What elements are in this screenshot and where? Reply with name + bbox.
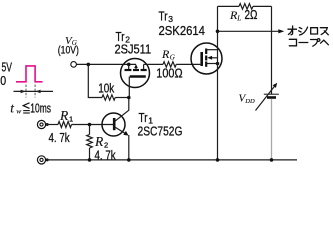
dashed marker left: [25, 85, 27, 98]
svg-text:Tr: Tr: [159, 10, 168, 23]
node VG junction: [87, 63, 91, 67]
ground rail: [46, 159, 297, 161]
Tr2 drain down-lead: [143, 64, 145, 69]
input terminal top: [37, 120, 45, 128]
resistor 10k: [102, 95, 115, 100]
wire 10k to node: [115, 97, 129, 99]
transistor Q Tr1 circle: [102, 113, 125, 136]
Tr2 gate lead down: [128, 77, 130, 98]
Tr2 channel dash left: [125, 69, 132, 71]
Tr2 channel dash middle: [133, 69, 139, 71]
resistor R2: [87, 135, 93, 149]
svg-text:2Ω: 2Ω: [245, 9, 258, 22]
wire VG to Tr2 source: [76, 63, 136, 65]
svg-text:L: L: [236, 15, 241, 23]
Tr1 base bar: [113, 118, 116, 130]
node rail R2: [88, 158, 92, 162]
svg-text:2SJ511: 2SJ511: [115, 41, 152, 56]
input terminal bottom: [37, 156, 45, 164]
Tr3 channel dash middle: [205, 56, 207, 61]
top rail left segment: [218, 5, 240, 7]
Tr3 source branch: [206, 63, 217, 65]
transistor Tr2 circle (2SJ511 P-MOSFET): [121, 59, 150, 88]
svg-text:R: R: [59, 108, 69, 123]
svg-text:DD: DD: [244, 98, 255, 105]
svg-text:2SC752G: 2SC752G: [138, 123, 183, 139]
node Tr3 source/body: [216, 62, 220, 66]
svg-text:R: R: [94, 134, 104, 149]
label oscilloscope katakana line1: オシロス: [288, 26, 328, 35]
wire scope tap arrow: [218, 30, 281, 32]
svg-text:1: 1: [69, 115, 73, 124]
Tr2 gate bar: [130, 75, 146, 78]
dimension line tw: [14, 90, 54, 92]
Tr2 body arrow (points up, P-ch): [135, 67, 137, 70]
label oscilloscope katakana line2: コープへ: [289, 39, 328, 47]
transistor Tr3 circle (2SK2614 N-MOSFET): [191, 43, 222, 74]
svg-text:10ms: 10ms: [30, 102, 51, 116]
wire RG to Tr3 gate: [176, 63, 200, 65]
battery variable arrow: [256, 85, 276, 110]
node rail Tr1 emitter: [127, 158, 131, 162]
pulse waveform (magenta): [16, 66, 43, 82]
svg-text:0: 0: [0, 73, 6, 88]
resistor R1: [58, 122, 72, 128]
node scope tap: [216, 30, 220, 34]
node rail VDD: [270, 158, 274, 162]
svg-text:(10V): (10V): [58, 45, 79, 57]
Tr3 drain branch: [206, 49, 217, 51]
battery VDD minus plate: [267, 96, 276, 99]
wire R1 to base: [72, 124, 114, 126]
Tr3 body arrow (points left, N-ch): [212, 57, 218, 59]
dashed marker right: [34, 85, 36, 98]
svg-text:G: G: [170, 53, 175, 61]
resistor RL: [239, 4, 253, 10]
wire input to R1: [46, 124, 58, 126]
Tr3 channel dash bottom: [205, 62, 207, 67]
Tr2 channel dash right: [141, 69, 147, 71]
svg-text:100Ω: 100Ω: [156, 66, 182, 81]
wire junction down to R2: [89, 125, 91, 135]
top rail right segment: [253, 5, 272, 7]
Tr3 gate bar: [200, 52, 203, 66]
node rail Tr3 source: [216, 158, 220, 162]
svg-text:2SK2614: 2SK2614: [159, 23, 206, 38]
wire VDD lead to ground (grey): [271, 99, 273, 160]
Tr3 channel dash top: [205, 49, 207, 55]
wire VG down to 10k: [88, 64, 102, 97]
wire R2 to ground rail: [89, 148, 91, 160]
Tr1 collector: [115, 98, 129, 122]
Tr2 source down-lead: [128, 64, 130, 69]
svg-text:10k: 10k: [98, 81, 114, 96]
wire right vertical from rail to VDD: [271, 6, 273, 94]
node 10k / gate / collector: [127, 96, 131, 100]
battery VDD plus plate: [264, 93, 279, 95]
svg-text:4. 7k: 4. 7k: [49, 131, 70, 146]
Tr2 source node dot: [127, 63, 131, 67]
Tr1 emitter with arrow: [115, 127, 127, 134]
svg-text:R: R: [161, 47, 170, 61]
wire Tr3 main vertical (drain up / source down): [217, 6, 219, 160]
terminal VG: [71, 62, 77, 68]
resistor RG: [163, 62, 176, 67]
svg-text:w: w: [16, 107, 21, 116]
Tr1 emitter lead to ground: [128, 135, 130, 160]
wire Tr2 drain to RG: [144, 63, 163, 65]
node junction R1/R2/base: [88, 123, 92, 127]
